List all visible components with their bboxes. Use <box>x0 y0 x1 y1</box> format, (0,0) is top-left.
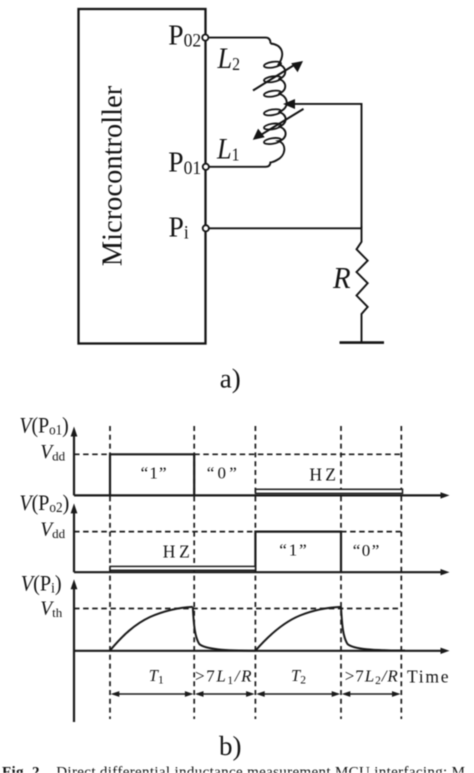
svg-text:“0”: “0” <box>353 541 380 560</box>
svg-text:“1”: “1” <box>279 541 307 560</box>
svg-text:>7L1/R: >7L1/R <box>195 666 252 687</box>
svg-text:>7L2/R: >7L2/R <box>345 666 399 687</box>
svg-text:R: R <box>332 261 351 295</box>
svg-text:“1”: “1” <box>141 463 167 482</box>
svg-text:V(Po2): V(Po2) <box>19 490 69 515</box>
svg-text:Fig. 2. Direct differential: Fig. 2. Direct differential inductance m… <box>2 764 465 773</box>
svg-text:V(Po1): V(Po1) <box>19 413 68 438</box>
svg-text:a): a) <box>220 364 241 394</box>
svg-text:Microcontroller: Microcontroller <box>98 85 129 266</box>
svg-text:Time: Time <box>407 666 449 686</box>
svg-text:b): b) <box>219 731 242 761</box>
svg-text:V(Pi): V(Pi) <box>21 571 62 597</box>
svg-text:“0”: “0” <box>207 463 237 482</box>
